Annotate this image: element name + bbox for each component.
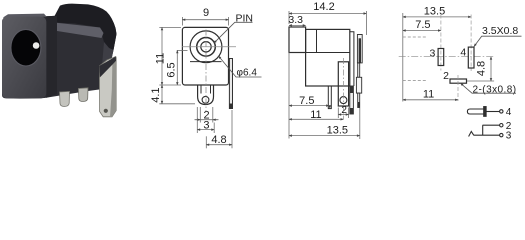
side lug hole bbox=[340, 97, 347, 104]
photo: center pin highlight bbox=[33, 42, 40, 49]
dimension 14.2 bbox=[289, 11, 366, 35]
front crosshair centerlines bbox=[182, 30, 236, 112]
pin 3 wire with switch contact bbox=[469, 131, 503, 136]
svg-text:4.1: 4.1 bbox=[150, 87, 162, 102]
dimension 11 (footprint) bbox=[403, 99, 458, 101]
svg-text:4: 4 bbox=[506, 107, 512, 118]
plug symbol pin 4 bbox=[467, 107, 503, 117]
svg-text:7.5: 7.5 bbox=[415, 19, 430, 31]
photo: side metal pin blade bbox=[99, 57, 116, 117]
dimension 7.5 (side) bbox=[289, 105, 329, 107]
dimension 13.5 (footprint) bbox=[403, 16, 471, 18]
side pin A bbox=[350, 86, 354, 114]
front lug outer bbox=[198, 85, 214, 105]
svg-text:11: 11 bbox=[310, 109, 321, 121]
svg-text:PIN: PIN bbox=[236, 13, 254, 25]
svg-text:3.5X0.8: 3.5X0.8 bbox=[482, 25, 518, 37]
svg-text:2: 2 bbox=[443, 70, 449, 82]
photo: light top facet band bbox=[54, 23, 104, 39]
dimension 4.8 (footprint) bbox=[467, 57, 494, 81]
svg-text:3: 3 bbox=[506, 131, 512, 142]
side pin B shoulder bbox=[356, 77, 361, 93]
photo: barrel hole bbox=[11, 29, 41, 66]
svg-text:4.8: 4.8 bbox=[211, 134, 226, 146]
dimension 4.1 bbox=[159, 85, 195, 104]
dimension 3.3 bbox=[289, 24, 306, 26]
dimension 2 (front lug inner) bbox=[195, 107, 219, 123]
photo: side pin hole bbox=[104, 109, 108, 113]
dimension 3 (front lug outer) bbox=[197, 107, 214, 133]
dimension 7.5 (footprint) bbox=[403, 30, 441, 32]
side plate bbox=[357, 35, 362, 63]
svg-text:4: 4 bbox=[460, 46, 466, 58]
front body outline bbox=[182, 27, 228, 85]
svg-text:11: 11 bbox=[423, 89, 434, 101]
dimension 2 (side lug) bbox=[338, 108, 348, 119]
pad 4 bbox=[468, 47, 474, 68]
photo: front block top bevel bbox=[3, 14, 46, 18]
photo: jack body silhouette bbox=[2, 5, 117, 99]
side front pin bbox=[328, 86, 331, 109]
front outer circle φ6.4 bbox=[190, 31, 222, 63]
photo: front block right strip bbox=[46, 16, 57, 98]
pads horizontal centerline bbox=[399, 56, 494, 58]
front middle circle bbox=[197, 38, 216, 57]
side lug bbox=[338, 62, 348, 106]
side body bbox=[306, 29, 350, 86]
footprint back edge dashed line bbox=[403, 80, 427, 82]
dimension 13.5 (side) bbox=[289, 108, 360, 139]
svg-text:2-(3x0.8): 2-(3x0.8) bbox=[473, 84, 517, 95]
front side pin strip bbox=[229, 59, 232, 109]
svg-text:3.3: 3.3 bbox=[288, 14, 303, 26]
dimension 9 (top) bbox=[182, 17, 228, 26]
pin 2 wire bbox=[483, 124, 503, 136]
svg-text:13.5: 13.5 bbox=[327, 125, 348, 137]
svg-text:7.5: 7.5 bbox=[299, 95, 314, 107]
pad 2 bbox=[450, 79, 467, 83]
dimension 6.5 bbox=[177, 49, 188, 51]
photo: bottom metal lug 2 bbox=[78, 88, 88, 102]
pad centerline vertical 4 bbox=[470, 15, 472, 72]
photo: bottom metal lug 1 bbox=[60, 91, 70, 106]
side pin B upper bbox=[358, 63, 360, 77]
photo: body shadow over pin top bbox=[99, 57, 116, 78]
svg-text:4.8: 4.8 bbox=[476, 61, 488, 76]
svg-text:13.5: 13.5 bbox=[424, 6, 445, 18]
svg-text:9: 9 bbox=[203, 7, 209, 19]
photo: dark top hump bbox=[54, 4, 117, 50]
side pin B lower bbox=[358, 93, 360, 107]
svg-text:3: 3 bbox=[429, 48, 435, 60]
svg-text:6.5: 6.5 bbox=[165, 62, 177, 77]
photo: front face bbox=[2, 17, 46, 99]
dimension 11 (left) bbox=[159, 27, 181, 85]
side plate ledge bbox=[357, 34, 362, 36]
footprint left extension line bbox=[402, 13, 404, 102]
side left extension line bbox=[288, 53, 290, 139]
side barrel bbox=[289, 27, 306, 53]
svg-text:2: 2 bbox=[341, 105, 347, 116]
front lug hole bbox=[202, 96, 209, 103]
dimension 4.8 (front) bbox=[206, 110, 232, 148]
photo: side pin shading bbox=[110, 58, 116, 118]
pad centerline vertical 3 bbox=[440, 15, 442, 71]
pad 2 centerline bbox=[457, 75, 459, 101]
side internal step bbox=[306, 29, 354, 86]
front lug inner lines bbox=[201, 85, 211, 94]
photo: right facet bbox=[100, 42, 114, 88]
footprint face dashed line bbox=[403, 36, 428, 38]
front boss base line bbox=[190, 61, 222, 63]
pad 3 bbox=[438, 49, 444, 66]
front inner circle bbox=[201, 42, 211, 52]
svg-text:14.2: 14.2 bbox=[313, 1, 334, 13]
dimension 11 (side) bbox=[289, 118, 343, 120]
side lug centerline bbox=[342, 58, 344, 119]
svg-text:3: 3 bbox=[203, 119, 209, 131]
